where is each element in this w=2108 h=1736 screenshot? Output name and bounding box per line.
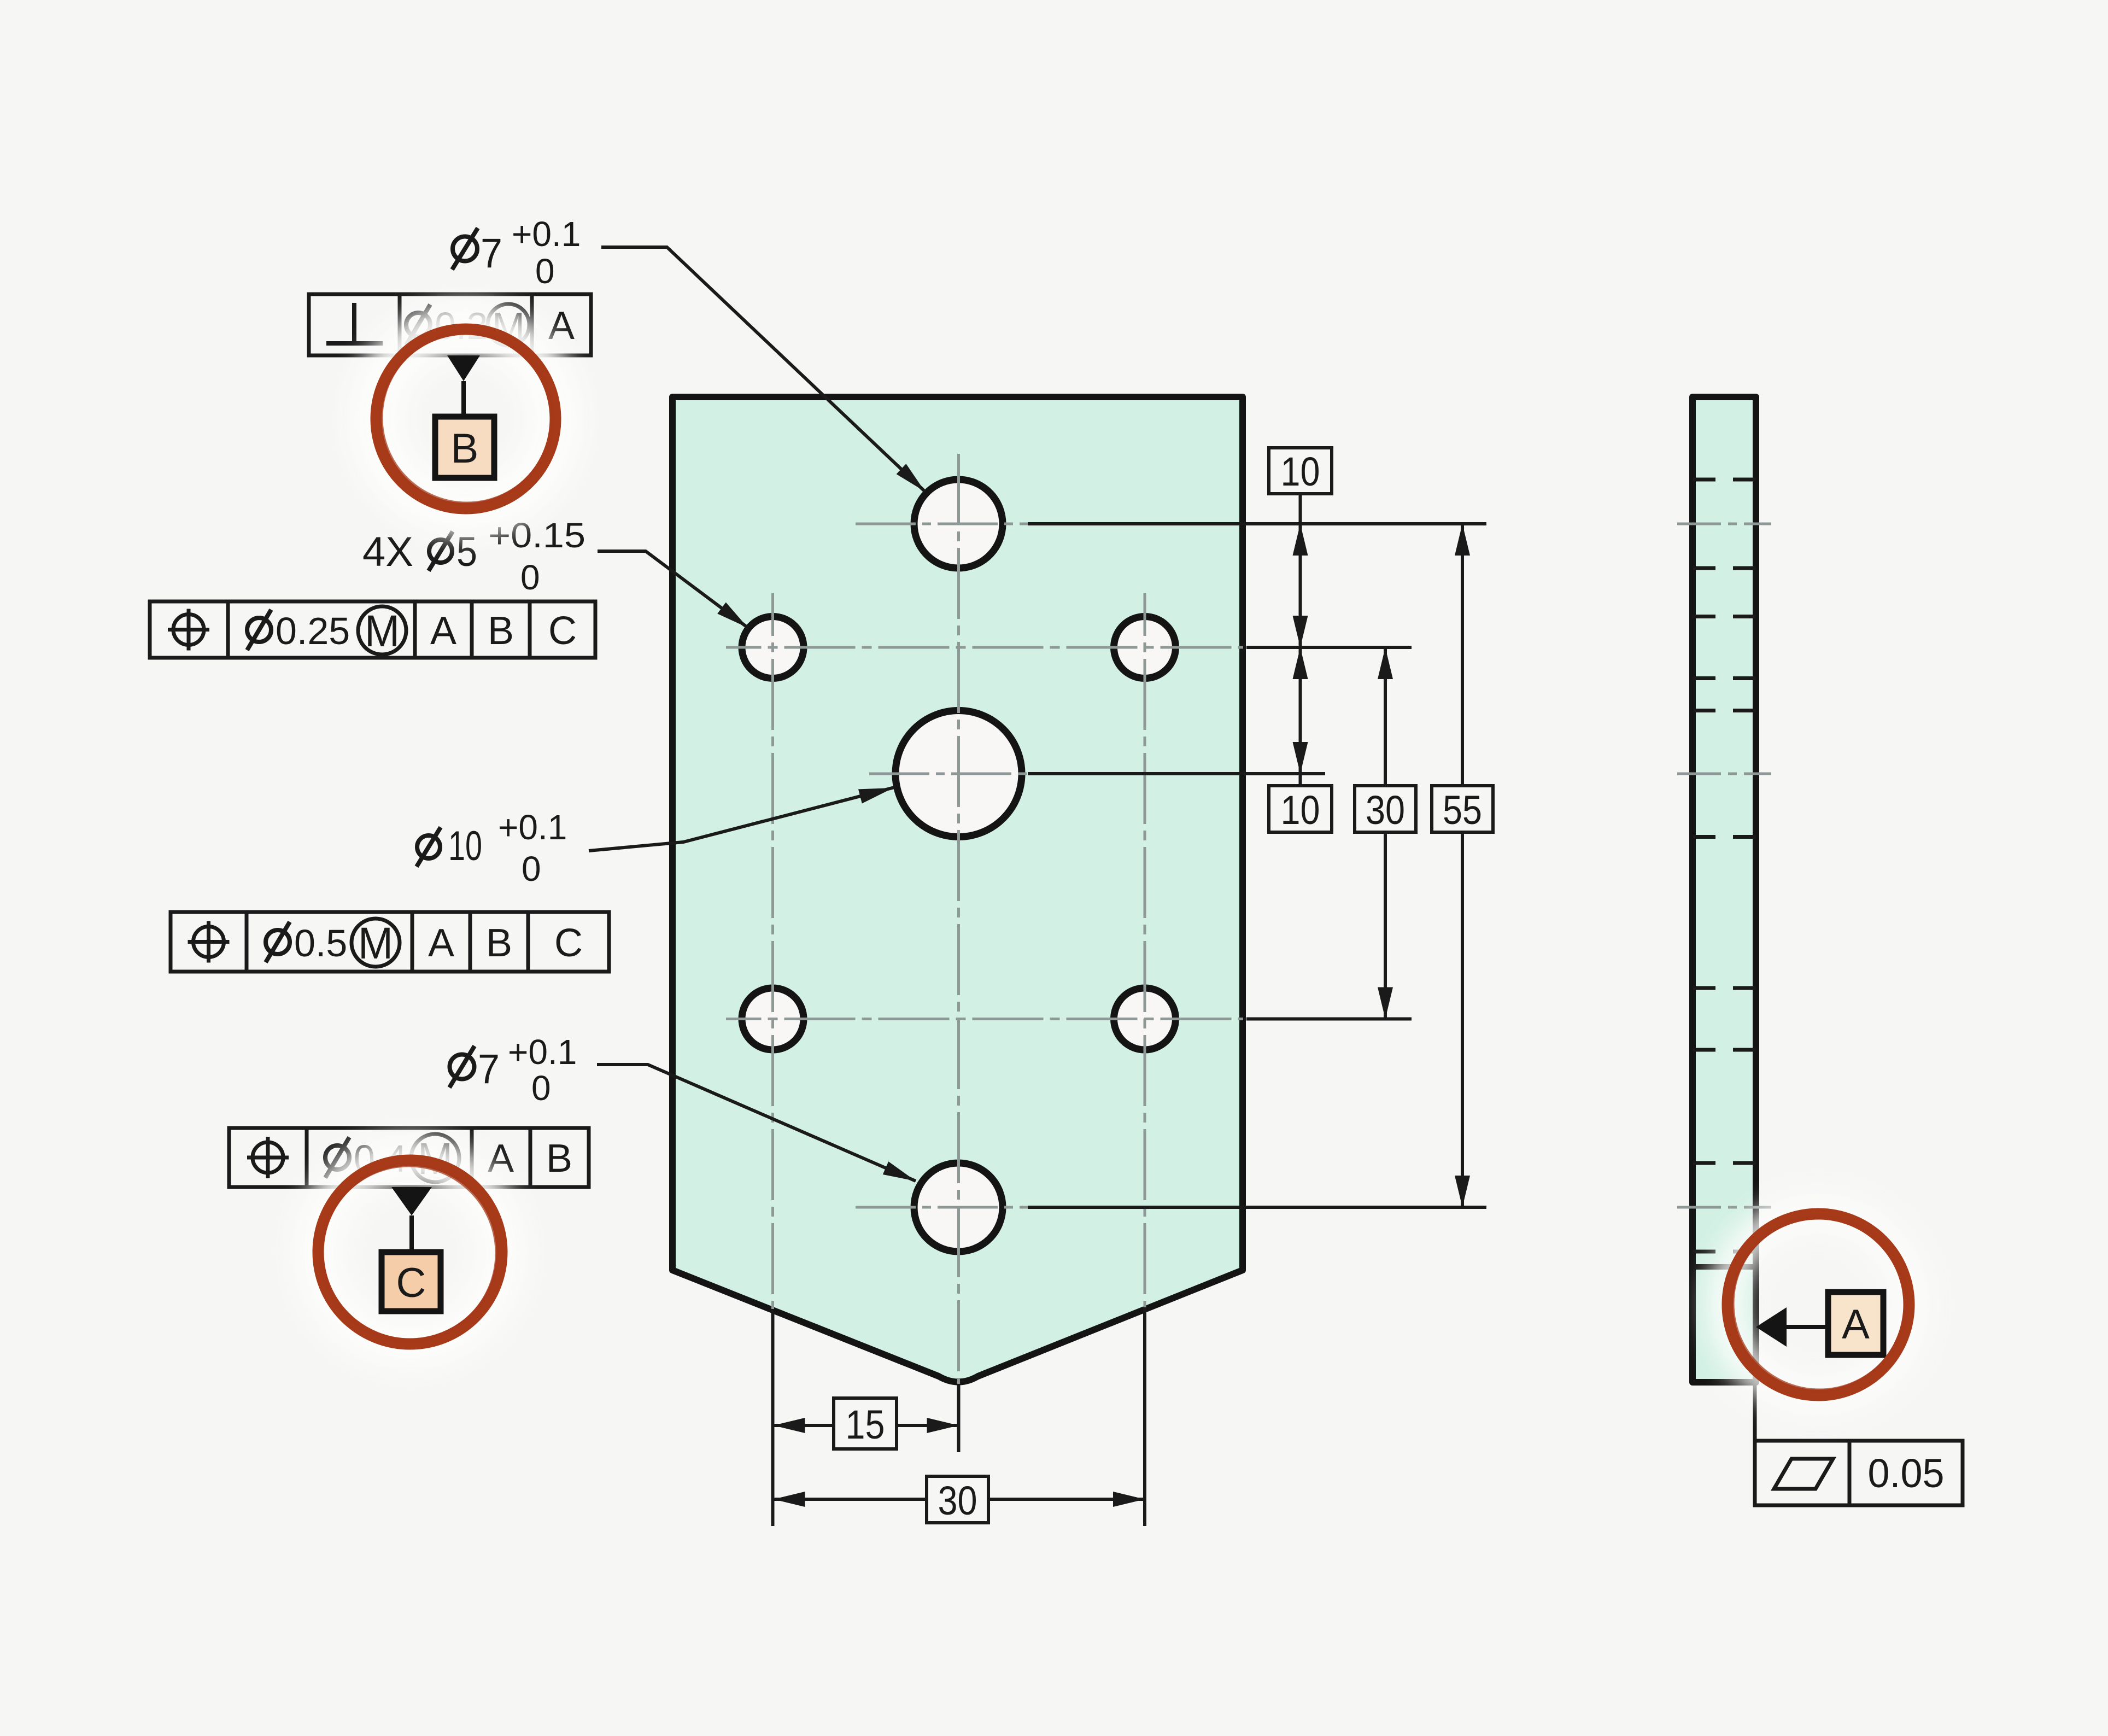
arrow 10 top down — [1293, 616, 1308, 647]
svg-text:A: A — [430, 609, 456, 653]
hidden line center hole lower — [1693, 835, 1756, 839]
hole row2 right (diam 5) — [1114, 988, 1176, 1050]
svg-text:7: 7 — [481, 230, 502, 277]
svg-text:30: 30 — [1366, 787, 1405, 833]
svg-text:B: B — [546, 1137, 572, 1180]
datum feature A triangle — [1756, 1307, 1787, 1347]
extension line right column below — [1143, 1308, 1146, 1526]
dim line 15 right part — [897, 1424, 959, 1427]
hole center (diam 10) — [895, 711, 1022, 837]
svg-text:10: 10 — [1281, 449, 1320, 494]
centerline center hole horizontal — [869, 773, 1028, 775]
perpendicularity symbol — [326, 303, 383, 343]
dim box 30 bottom — [927, 1476, 988, 1523]
svg-text:4X: 4X — [362, 529, 413, 575]
position symbol — [168, 609, 209, 651]
hidden line bottom hole lower — [1693, 1250, 1756, 1254]
svg-text:C: C — [396, 1260, 426, 1306]
datum feature C triangle — [391, 1187, 432, 1215]
extension line bottom hole right — [1028, 1206, 1486, 1209]
dim box 55 — [1432, 786, 1493, 832]
hidden line row2 upper — [1693, 986, 1756, 990]
dim line 55 lower — [1461, 832, 1464, 1207]
arrow 30 bottom right — [1113, 1492, 1145, 1507]
FCF1 M modifier — [488, 304, 529, 346]
svg-text:30: 30 — [938, 1478, 977, 1523]
leader top hole — [601, 247, 925, 492]
hole row1 right (diam 5) — [1114, 617, 1176, 679]
FCF1 tolerance text: diameter symbol — [406, 305, 430, 345]
red annotation circle around datum A — [1728, 1214, 1909, 1395]
side centerline top hole — [1677, 523, 1771, 525]
hole top (diam 7) — [914, 480, 1003, 568]
extension line center hole right — [1028, 772, 1325, 775]
svg-text:10: 10 — [448, 823, 482, 869]
centerline left hole column — [771, 593, 774, 1309]
arrow 10 bottom down — [1293, 742, 1308, 774]
dim box 30 right — [1355, 786, 1416, 832]
centerline right hole column — [1144, 593, 1146, 1307]
dim box 15 — [834, 1398, 897, 1449]
leader dim box 10 top — [1299, 493, 1302, 524]
arrow 10 bottom up — [1293, 647, 1308, 679]
FCF4 diameter symbol — [325, 1137, 349, 1178]
svg-text:0: 0 — [522, 849, 541, 889]
svg-text:C: C — [548, 609, 577, 653]
arrow 10 top up — [1293, 524, 1308, 556]
arrow 30 bottom left — [774, 1492, 805, 1507]
FCF perpendicularity (top left) — [309, 294, 591, 355]
svg-text:+0.1: +0.1 — [498, 808, 567, 847]
svg-text:B: B — [486, 921, 512, 965]
svg-text:+0.1: +0.1 — [512, 214, 581, 254]
position symbol — [247, 1137, 289, 1178]
leader bottom hole — [597, 1065, 916, 1181]
dim line 30 right upper — [1384, 647, 1387, 786]
svg-text:0: 0 — [531, 1068, 551, 1108]
svg-text:A: A — [428, 921, 454, 965]
extension line left column below — [771, 1310, 775, 1526]
flatness symbol — [1774, 1459, 1833, 1489]
hole row1 left (diam 5) — [742, 617, 804, 679]
extension line row1 right — [1246, 646, 1412, 649]
centerline row1 holes — [726, 646, 1243, 649]
arrow 15 right — [927, 1418, 959, 1433]
glow halo around datum C circle — [318, 1160, 502, 1344]
svg-text:0.05: 0.05 — [1868, 1451, 1945, 1496]
hidden line center hole upper — [1693, 709, 1756, 712]
svg-text:M: M — [365, 606, 400, 656]
svg-text:55: 55 — [1443, 787, 1482, 833]
dim line 10 bottom — [1299, 647, 1302, 786]
side centerline bottom hole — [1677, 1206, 1771, 1209]
hidden line top hole upper — [1693, 478, 1756, 482]
datum C stem — [409, 1215, 414, 1252]
dim line 30 bottom left part — [774, 1498, 927, 1501]
FCF4 M modifier — [411, 1134, 459, 1182]
side view body — [1693, 397, 1756, 1382]
dim line 15 left part — [774, 1424, 834, 1427]
hidden line row1 upper — [1693, 615, 1756, 618]
svg-text:B: B — [488, 609, 514, 653]
position symbol — [188, 921, 230, 963]
hole bottom (diam 7) — [914, 1163, 1003, 1252]
glow halo around datum B circle — [376, 329, 555, 508]
datum feature B triangle — [447, 355, 480, 381]
centerline middle column — [957, 454, 960, 1384]
centerline top hole horizontal — [856, 523, 1028, 525]
extension line top hole right — [1028, 522, 1486, 525]
dim line 30 right lower — [1384, 832, 1387, 1019]
leader center hole — [589, 787, 894, 851]
dim box 10 top — [1269, 448, 1332, 494]
svg-text:15: 15 — [846, 1402, 885, 1447]
datum A box — [1828, 1292, 1883, 1355]
svg-text:0: 0 — [535, 252, 555, 291]
label center hole diam 10 — [417, 827, 441, 867]
glow halo around datum A circle — [1726, 1213, 1910, 1396]
FCF position 0.4 (lower left) — [229, 1128, 589, 1187]
svg-text:7: 7 — [478, 1046, 500, 1092]
arrow 30 right down — [1378, 987, 1393, 1019]
red annotation circle around datum C — [318, 1160, 502, 1344]
datum C box — [382, 1252, 441, 1311]
svg-text:B: B — [451, 425, 479, 472]
datum B stem — [461, 381, 466, 417]
label top hole diam 7 — [452, 228, 478, 270]
hidden line bottom hole upper — [1693, 1161, 1756, 1165]
svg-text:+0.1: +0.1 — [508, 1032, 577, 1072]
red annotation circle around datum B — [376, 329, 555, 508]
arrow 30 right up — [1378, 647, 1393, 679]
FCF3 diameter symbol — [266, 922, 290, 962]
FCF3 M modifier — [352, 919, 400, 967]
svg-text:0: 0 — [520, 558, 540, 597]
svg-text:0.25: 0.25 — [276, 610, 350, 652]
arrow 55 down — [1455, 1176, 1470, 1207]
svg-text:A: A — [1842, 1301, 1870, 1348]
centerline row2 holes — [726, 1018, 1243, 1020]
hidden line row2 lower — [1693, 1048, 1756, 1052]
plate body (front view) — [672, 397, 1243, 1382]
extension line mid column below — [957, 1384, 961, 1452]
datum A stem — [1787, 1325, 1828, 1329]
centerline bottom hole horizontal — [856, 1206, 1028, 1209]
FCF2 diameter symbol — [247, 610, 271, 650]
side centerline center hole — [1677, 773, 1771, 775]
label bottom hole diam 7 — [449, 1046, 475, 1088]
arrow 55 up — [1455, 524, 1470, 556]
FCF position 0.5 (middle left) — [171, 912, 609, 972]
extension line row2 right — [1246, 1018, 1412, 1021]
dim line 30 bottom right part — [988, 1498, 1145, 1501]
FCF position 0.25 (upper left) — [150, 601, 595, 658]
svg-text:M: M — [358, 919, 393, 968]
svg-text:C: C — [554, 921, 583, 965]
side view chamfer edge line — [1693, 1264, 1756, 1270]
svg-text:10: 10 — [1281, 787, 1320, 833]
FCF2 M modifier — [358, 606, 406, 654]
flatness leader from side view corner — [1753, 1382, 1757, 1441]
hole row2 left (diam 5) — [742, 988, 804, 1050]
dim box 10 lower — [1269, 786, 1332, 832]
datum B box — [435, 417, 494, 478]
hidden line top hole lower — [1693, 566, 1756, 570]
dim line 10 top — [1299, 524, 1302, 647]
dim line 55 upper — [1461, 524, 1464, 786]
leader 4X holes — [598, 551, 748, 628]
hidden line row1 lower — [1693, 676, 1756, 680]
svg-text:0.5: 0.5 — [294, 922, 347, 965]
arrow 15 left — [774, 1418, 805, 1433]
